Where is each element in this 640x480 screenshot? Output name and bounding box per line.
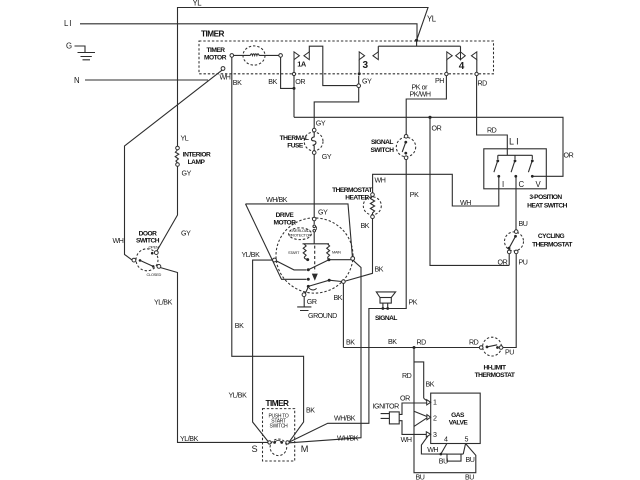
svg-text:2: 2 [433, 415, 437, 423]
svg-text:GY: GY [181, 230, 191, 238]
svg-text:BK: BK [426, 381, 435, 389]
svg-text:S: S [252, 444, 258, 454]
svg-text:THERMAL: THERMAL [280, 135, 309, 142]
svg-text:WH: WH [460, 199, 471, 207]
svg-text:1: 1 [433, 399, 437, 407]
svg-text:RD: RD [469, 339, 479, 347]
svg-text:MOTOR: MOTOR [274, 220, 297, 227]
svg-text:3-POSITION: 3-POSITION [529, 194, 562, 201]
svg-text:RD: RD [402, 372, 412, 380]
svg-text:YL/BK: YL/BK [229, 392, 248, 400]
svg-text:G: G [66, 42, 72, 51]
svg-text:BK: BK [346, 339, 355, 347]
svg-text:CLOSED: CLOSED [147, 272, 162, 277]
svg-text:HI-LIMIT: HI-LIMIT [483, 365, 505, 372]
svg-text:BK: BK [361, 222, 370, 230]
svg-text:PK: PK [409, 299, 418, 307]
svg-text:BU: BU [466, 456, 475, 464]
svg-text:WH: WH [401, 436, 412, 444]
svg-text:SIGNAL: SIGNAL [371, 139, 393, 146]
svg-text:WH: WH [220, 74, 231, 82]
svg-text:OR: OR [400, 395, 410, 403]
svg-text:YL: YL [181, 135, 189, 143]
svg-text:OPEN: OPEN [149, 244, 159, 249]
svg-text:DOOR: DOOR [139, 230, 158, 237]
svg-text:BK: BK [268, 78, 277, 86]
svg-text:HEATER: HEATER [345, 195, 369, 202]
svg-text:GROUND: GROUND [308, 312, 337, 320]
svg-text:M: M [301, 444, 309, 454]
svg-text:L I: L I [509, 137, 519, 147]
svg-text:WH: WH [427, 446, 438, 454]
svg-text:BU: BU [519, 220, 528, 228]
svg-text:CYCLING: CYCLING [538, 233, 565, 240]
svg-text:RD: RD [478, 80, 488, 88]
svg-text:5: 5 [465, 435, 469, 443]
svg-text:3: 3 [433, 431, 437, 439]
svg-text:WH: WH [375, 177, 386, 185]
svg-text:MOTOR: MOTOR [204, 55, 227, 62]
svg-text:L I: L I [64, 19, 71, 28]
svg-text:OR: OR [432, 125, 442, 133]
svg-text:YL/BK: YL/BK [242, 251, 261, 259]
svg-text:MAIN: MAIN [332, 250, 341, 255]
svg-text:C: C [519, 180, 525, 189]
svg-text:THERMOSTAT: THERMOSTAT [532, 242, 572, 249]
svg-text:YL/BK: YL/BK [154, 299, 173, 307]
svg-text:BK: BK [306, 407, 315, 415]
svg-text:PU: PU [505, 349, 514, 357]
svg-text:BU: BU [465, 474, 474, 480]
svg-text:TIMER: TIMER [266, 399, 290, 408]
svg-text:WH/BK: WH/BK [266, 196, 288, 204]
svg-text:BU: BU [439, 457, 448, 465]
svg-text:START: START [288, 250, 300, 255]
svg-text:GY: GY [316, 120, 326, 128]
svg-text:RD: RD [417, 339, 427, 347]
svg-text:BK: BK [334, 294, 343, 302]
svg-text:THERMOSTAT: THERMOSTAT [332, 187, 372, 194]
svg-text:TIMER: TIMER [206, 47, 225, 54]
svg-text:TIMER: TIMER [201, 30, 225, 39]
svg-text:GY: GY [362, 78, 372, 86]
svg-text:PK: PK [410, 191, 419, 199]
svg-text:BK: BK [233, 79, 242, 87]
svg-text:OR: OR [295, 78, 305, 86]
svg-text:YL/BK: YL/BK [180, 435, 199, 443]
svg-text:IGNITOR: IGNITOR [373, 403, 400, 411]
svg-text:SWITCH: SWITCH [270, 423, 289, 429]
svg-text:GY: GY [182, 170, 192, 178]
svg-text:N: N [74, 76, 79, 85]
svg-text:BK: BK [235, 322, 244, 330]
svg-text:DRIVE: DRIVE [276, 212, 295, 219]
svg-text:YL: YL [193, 0, 203, 8]
svg-text:4: 4 [459, 61, 465, 72]
svg-text:OR: OR [498, 259, 508, 267]
svg-text:SWITCH: SWITCH [370, 147, 394, 154]
svg-text:GY: GY [318, 209, 328, 217]
svg-text:PK/WH: PK/WH [410, 91, 431, 99]
svg-text:PROTECTOR: PROTECTOR [289, 233, 312, 238]
svg-text:WH/BK: WH/BK [337, 435, 359, 443]
svg-text:GAS: GAS [451, 412, 465, 419]
svg-text:BU: BU [416, 474, 425, 480]
svg-text:PH: PH [435, 77, 444, 85]
svg-text:OR: OR [564, 152, 574, 160]
svg-text:3: 3 [363, 60, 369, 71]
svg-text:RD: RD [487, 127, 497, 135]
svg-text:YL: YL [427, 15, 437, 24]
svg-text:WH: WH [113, 237, 124, 245]
svg-text:THERMOSTAT: THERMOSTAT [475, 372, 515, 379]
svg-text:4: 4 [444, 435, 448, 443]
svg-text:FUSE: FUSE [287, 143, 304, 150]
svg-text:BK: BK [375, 266, 384, 274]
svg-text:INTERIOR: INTERIOR [183, 152, 211, 159]
svg-text:VALVE: VALVE [449, 420, 469, 427]
svg-text:GY: GY [322, 153, 332, 161]
svg-text:GR: GR [307, 298, 317, 306]
svg-text:LAMP: LAMP [188, 159, 206, 166]
svg-text:BK: BK [388, 338, 397, 346]
svg-text:HEAT SWITCH: HEAT SWITCH [527, 203, 568, 210]
svg-text:PU: PU [519, 259, 528, 267]
svg-text:WH/BK: WH/BK [334, 415, 356, 423]
svg-text:SIGNAL: SIGNAL [375, 315, 397, 322]
svg-text:1A: 1A [297, 59, 307, 68]
